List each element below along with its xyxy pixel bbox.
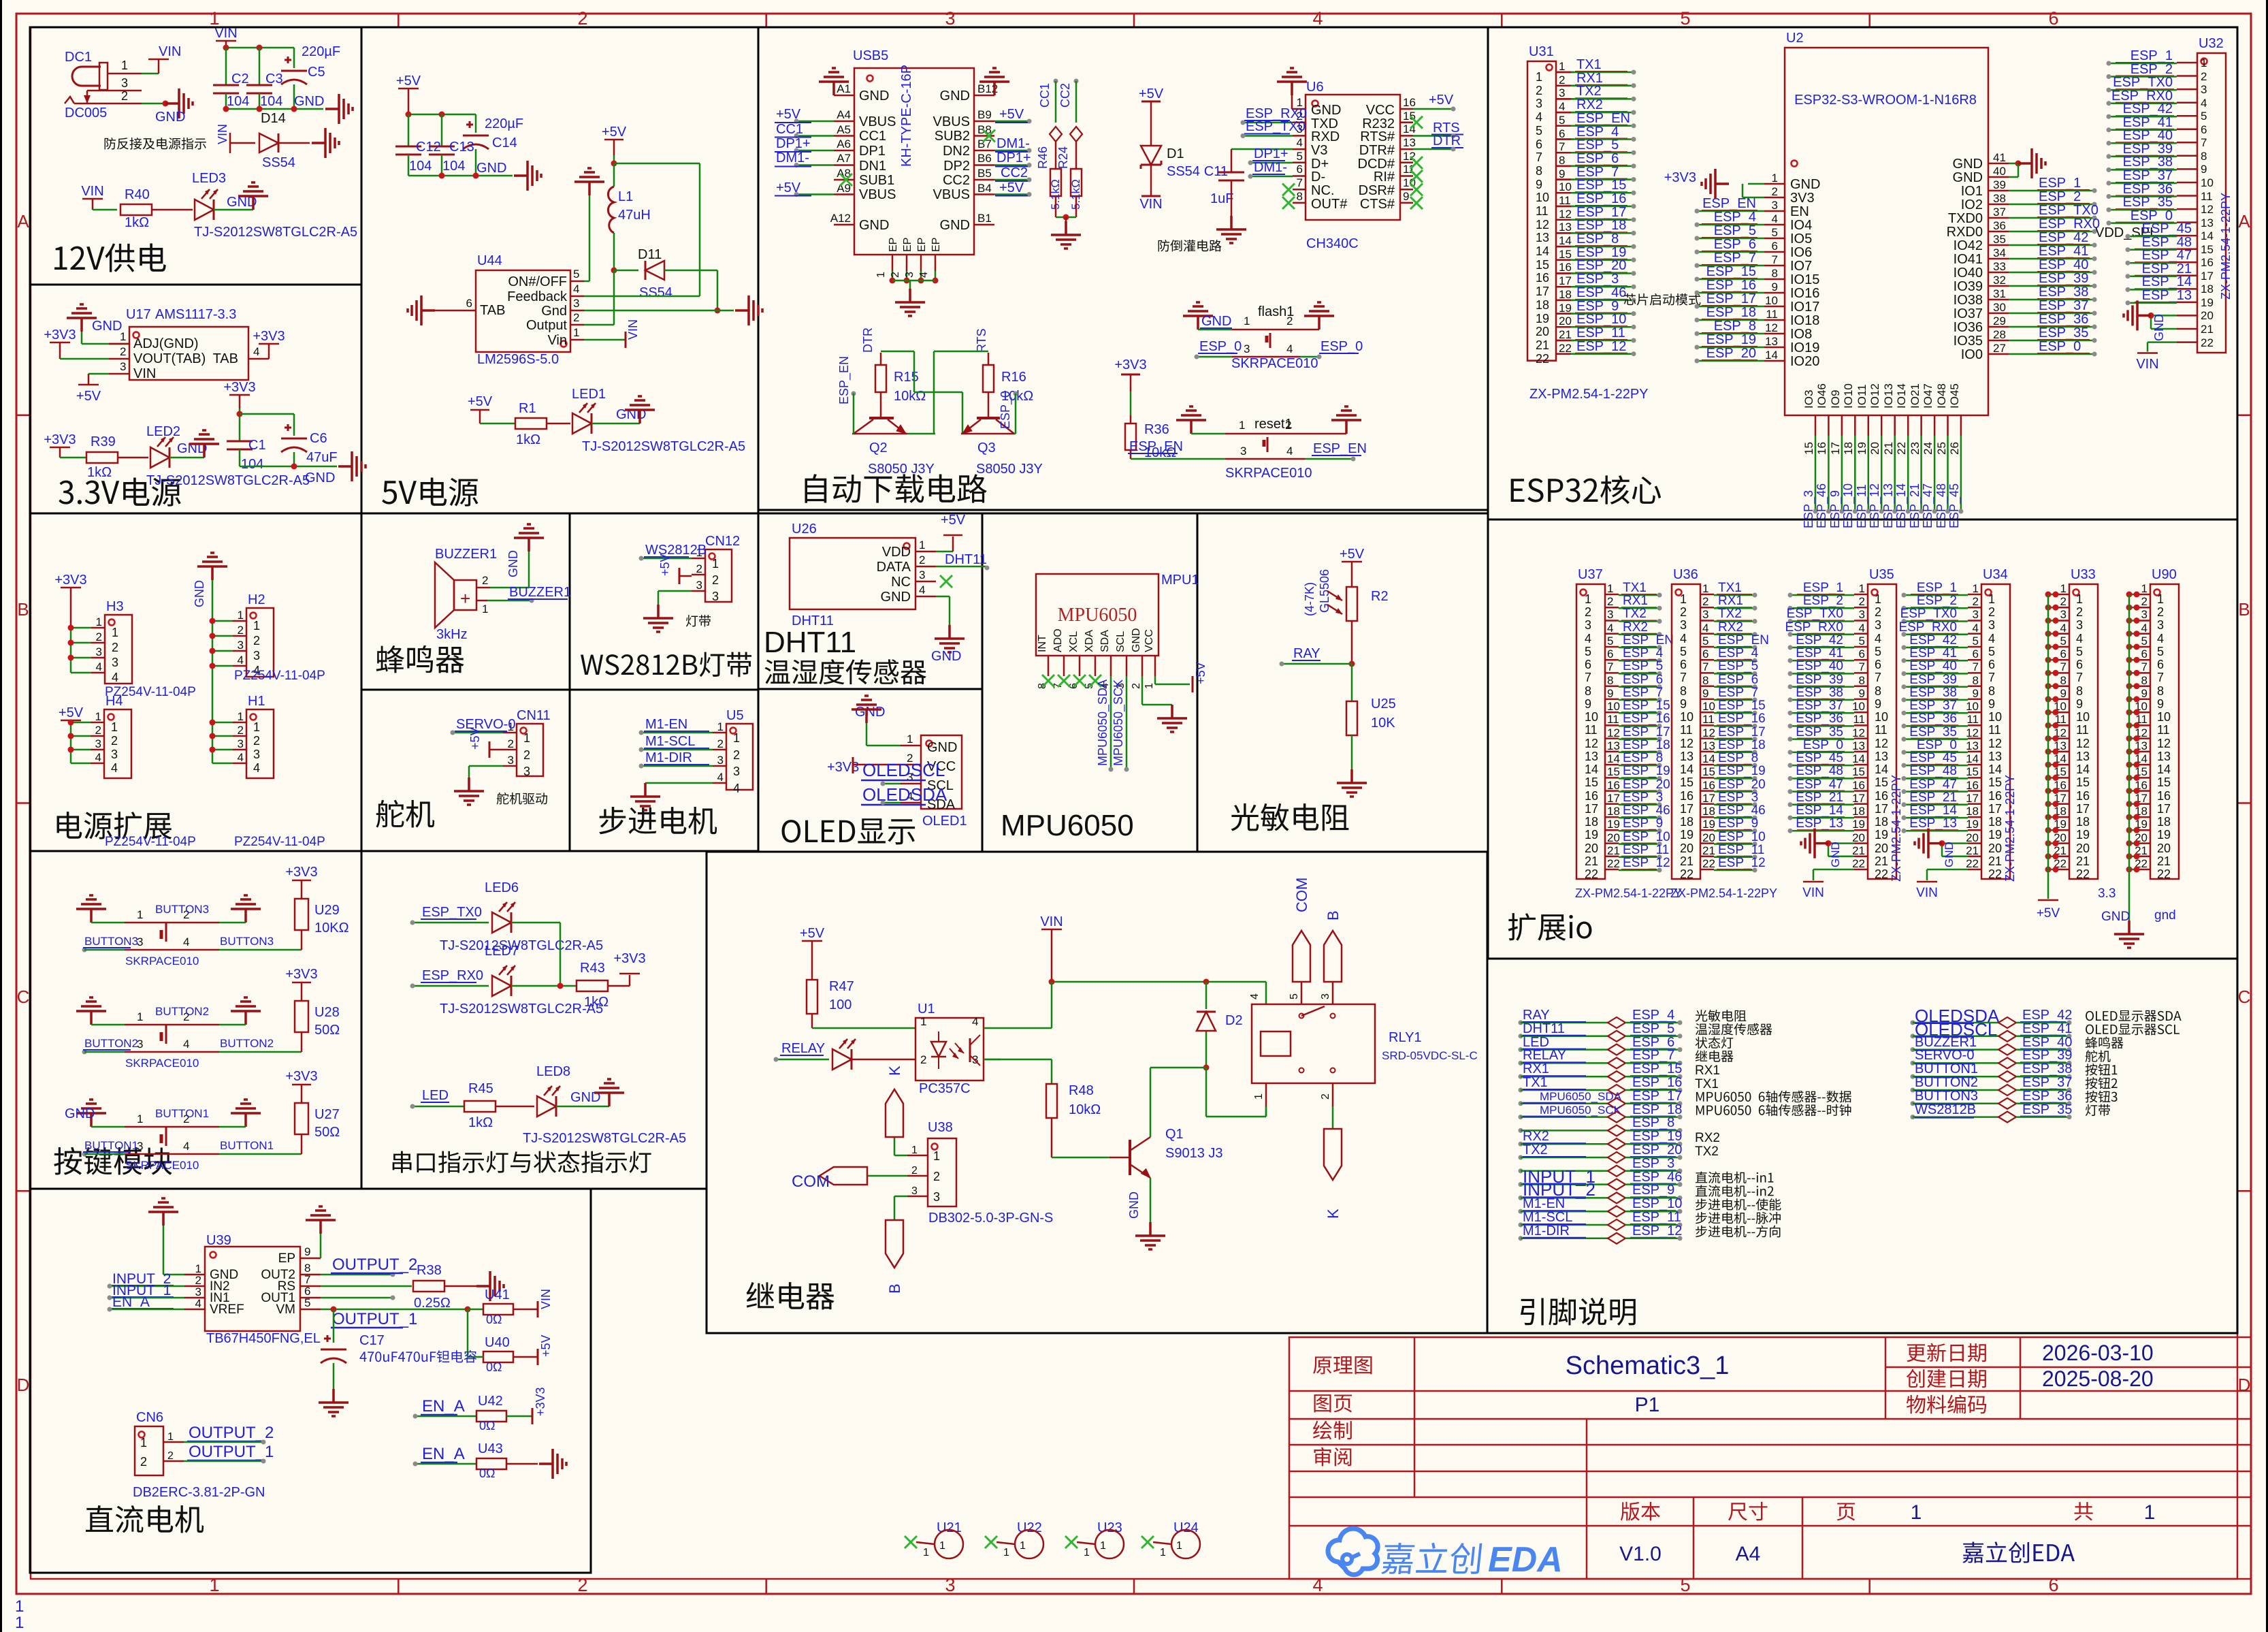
svg-text:Gnd: Gnd <box>541 304 567 319</box>
svg-text:17: 17 <box>2201 270 2214 283</box>
svg-text:DP1: DP1 <box>859 144 886 159</box>
svg-text:8: 8 <box>1859 674 1865 687</box>
svg-text:2: 2 <box>1702 595 1708 608</box>
svg-text:DN2: DN2 <box>943 144 970 159</box>
svg-text:BUTTON2: BUTTON2 <box>84 1037 138 1050</box>
svg-text:9: 9 <box>2060 687 2067 700</box>
svg-text:3: 3 <box>1536 97 1542 110</box>
svg-text:MPU6050_SCK: MPU6050_SCK <box>1540 1104 1622 1117</box>
svg-text:1: 1 <box>1160 1547 1166 1558</box>
svg-text:U42: U42 <box>478 1394 503 1409</box>
svg-text:4: 4 <box>717 771 724 784</box>
svg-text:ESP_15: ESP_15 <box>1718 699 1766 713</box>
svg-text:12: 12 <box>1702 726 1715 739</box>
svg-text:3: 3 <box>120 360 126 373</box>
svg-text:19: 19 <box>1702 818 1715 831</box>
svg-text:5: 5 <box>1680 1575 1690 1595</box>
svg-text:1: 1 <box>120 330 126 343</box>
svg-text:11: 11 <box>2201 190 2213 203</box>
svg-text:ESP_41: ESP_41 <box>1796 646 1843 660</box>
svg-text:2: 2 <box>712 573 719 587</box>
svg-text:GND: GND <box>1790 177 1820 192</box>
svg-text:17: 17 <box>1680 802 1694 816</box>
svg-text:10kΩ: 10kΩ <box>894 389 926 404</box>
svg-text:20: 20 <box>1585 842 1598 855</box>
svg-text:15: 15 <box>1536 258 1549 272</box>
svg-text:1: 1 <box>923 1547 929 1558</box>
svg-text:2: 2 <box>112 641 118 654</box>
svg-text:ESP_6: ESP_6 <box>1576 151 1619 166</box>
svg-text:GND: GND <box>859 218 889 233</box>
svg-text:ESP_0: ESP_0 <box>2039 339 2081 354</box>
svg-text:50Ω: 50Ω <box>314 1023 340 1038</box>
svg-text:SUB1: SUB1 <box>859 173 894 188</box>
svg-text:TXD0: TXD0 <box>1948 211 1983 226</box>
svg-text:+3V3: +3V3 <box>285 967 317 982</box>
svg-text:A7: A7 <box>837 152 851 165</box>
svg-text:28: 28 <box>1993 328 2006 341</box>
svg-text:22: 22 <box>2076 867 2090 881</box>
svg-text:1: 1 <box>1239 419 1245 432</box>
svg-text:+5V: +5V <box>1139 86 1164 101</box>
svg-text:INT: INT <box>1037 635 1048 652</box>
svg-text:ESP_35: ESP_35 <box>2039 325 2088 340</box>
svg-text:ESP_EN: ESP_EN <box>1576 111 1630 126</box>
svg-text:GND: GND <box>931 649 961 664</box>
svg-text:ESP_EN: ESP_EN <box>1313 441 1367 456</box>
svg-text:SKRPACE010: SKRPACE010 <box>125 1057 199 1070</box>
svg-text:1: 1 <box>933 1149 940 1163</box>
svg-text:1: 1 <box>875 272 887 278</box>
svg-text:VCC: VCC <box>1366 103 1395 118</box>
svg-text:gnd: gnd <box>2154 908 2176 923</box>
svg-text:ZX-PM2.54-1-22PY: ZX-PM2.54-1-22PY <box>1670 886 1777 900</box>
svg-text:ESP_7: ESP_7 <box>1623 686 1663 700</box>
svg-text:8: 8 <box>1680 684 1687 698</box>
svg-text:3: 3 <box>1585 618 1591 632</box>
svg-text:reset1: reset1 <box>1254 417 1293 432</box>
svg-text:M1-EN: M1-EN <box>1523 1196 1565 1211</box>
svg-text:47uH: 47uH <box>618 208 651 223</box>
svg-text:10: 10 <box>1765 294 1778 307</box>
svg-text:6: 6 <box>2201 123 2207 136</box>
svg-text:PZ254V-11-04P: PZ254V-11-04P <box>105 835 196 849</box>
svg-text:4: 4 <box>2141 622 2148 635</box>
svg-text:19: 19 <box>1585 828 1598 842</box>
svg-text:19: 19 <box>1607 818 1620 831</box>
svg-text:OLED1: OLED1 <box>922 814 967 829</box>
svg-text:4: 4 <box>253 345 259 358</box>
svg-text:IO46: IO46 <box>1815 383 1828 409</box>
svg-text:C6: C6 <box>310 431 327 446</box>
svg-text:0Ω: 0Ω <box>479 1419 495 1433</box>
svg-text:ESP_40: ESP_40 <box>2123 128 2173 143</box>
svg-text:ESP_1: ESP_1 <box>1917 581 1957 595</box>
svg-text:9: 9 <box>1680 697 1687 711</box>
svg-text:8: 8 <box>2157 684 2164 698</box>
svg-text:3: 3 <box>2060 608 2067 621</box>
svg-text:3: 3 <box>2201 83 2207 96</box>
svg-text:EP: EP <box>888 238 899 252</box>
svg-text:26: 26 <box>1948 442 1961 455</box>
svg-text:21: 21 <box>1875 854 1888 868</box>
svg-text:B: B <box>886 1283 903 1294</box>
svg-text:3: 3 <box>1973 608 1979 621</box>
svg-text:U41: U41 <box>485 1287 510 1302</box>
svg-text:2: 2 <box>919 554 925 566</box>
svg-text:C2: C2 <box>231 71 249 86</box>
svg-text:2: 2 <box>1585 605 1591 619</box>
svg-text:ESP_16: ESP_16 <box>1718 711 1766 726</box>
svg-text:7: 7 <box>2060 660 2067 673</box>
svg-text:BUZZER1: BUZZER1 <box>435 547 497 562</box>
svg-text:5: 5 <box>1859 635 1865 647</box>
svg-text:RX2: RX2 <box>1576 97 1603 112</box>
svg-text:12: 12 <box>1585 737 1598 750</box>
svg-text:15: 15 <box>2157 775 2171 789</box>
svg-text:BUTTON1: BUTTON1 <box>84 1139 138 1152</box>
svg-text:1: 1 <box>573 326 579 339</box>
svg-text:1: 1 <box>733 731 740 745</box>
svg-text:DP1+: DP1+ <box>1254 146 1289 161</box>
svg-text:11: 11 <box>1702 713 1715 726</box>
svg-text:U5: U5 <box>726 708 744 723</box>
svg-text:MPU6050_SDA: MPU6050_SDA <box>1540 1090 1622 1103</box>
svg-text:GND: GND <box>305 470 335 485</box>
svg-text:37: 37 <box>1993 206 2006 219</box>
svg-text:1: 1 <box>96 615 102 628</box>
svg-text:22: 22 <box>1536 352 1549 366</box>
svg-text:18: 18 <box>2076 815 2090 829</box>
svg-text:1: 1 <box>95 710 101 723</box>
svg-text:ESP_1: ESP_1 <box>1803 581 1843 595</box>
svg-text:16: 16 <box>1815 442 1828 455</box>
svg-text:17: 17 <box>1702 792 1715 805</box>
svg-text:ESP_7: ESP_7 <box>1714 251 1756 266</box>
svg-text:B6: B6 <box>977 152 992 165</box>
svg-text:TJ-S2012SW8TGLC2R-A5: TJ-S2012SW8TGLC2R-A5 <box>582 439 745 454</box>
svg-text:4: 4 <box>1286 445 1293 458</box>
svg-text:2: 2 <box>140 1455 147 1469</box>
svg-text:U17: U17 <box>126 307 151 322</box>
svg-text:14: 14 <box>1536 244 1549 258</box>
svg-text:5: 5 <box>1607 635 1613 647</box>
svg-text:A1: A1 <box>837 82 851 95</box>
svg-text:A12: A12 <box>830 212 851 225</box>
svg-text:IO18: IO18 <box>1790 313 1819 328</box>
svg-text:4: 4 <box>918 272 930 278</box>
svg-text:ON#/OFF: ON#/OFF <box>508 274 567 289</box>
svg-text:1kΩ: 1kΩ <box>468 1115 493 1130</box>
svg-text:22: 22 <box>2201 336 2214 349</box>
svg-text:2: 2 <box>2201 70 2207 83</box>
svg-text:3: 3 <box>1244 342 1250 355</box>
svg-text:ESP_10: ESP_10 <box>1718 830 1766 844</box>
svg-text:10: 10 <box>2157 710 2171 724</box>
svg-text:6: 6 <box>1680 658 1687 671</box>
svg-text:VIN: VIN <box>214 26 237 41</box>
svg-text:7: 7 <box>1988 671 1995 684</box>
svg-text:+5V: +5V <box>1194 662 1208 684</box>
svg-text:5: 5 <box>2060 635 2067 647</box>
svg-text:16: 16 <box>1988 789 2002 803</box>
svg-text:Vin: Vin <box>547 333 567 348</box>
svg-text:18: 18 <box>1852 805 1865 818</box>
svg-text:4: 4 <box>183 935 189 948</box>
svg-text:ESP_TX0: ESP_TX0 <box>2113 75 2173 90</box>
svg-text:2: 2 <box>523 748 530 762</box>
svg-text:H2: H2 <box>248 592 265 607</box>
svg-text:4: 4 <box>1772 212 1778 225</box>
svg-text:ESP_8: ESP_8 <box>1576 231 1619 246</box>
svg-text:1: 1 <box>2060 582 2067 595</box>
svg-text:10: 10 <box>1680 710 1694 724</box>
svg-text:7: 7 <box>1702 660 1708 673</box>
svg-text:5: 5 <box>2076 645 2083 658</box>
svg-text:U90: U90 <box>2152 567 2177 582</box>
svg-text:10: 10 <box>1966 700 1979 713</box>
svg-text:11: 11 <box>1559 194 1571 207</box>
svg-text:104: 104 <box>241 457 263 472</box>
svg-text:8: 8 <box>2201 150 2207 163</box>
svg-text:18: 18 <box>1585 815 1598 829</box>
svg-text:19: 19 <box>1536 312 1549 325</box>
svg-text:10: 10 <box>2201 176 2214 189</box>
svg-text:WS2812B: WS2812B <box>1915 1102 1976 1117</box>
svg-text:9: 9 <box>1875 697 1881 711</box>
svg-text:6: 6 <box>1988 658 1995 671</box>
svg-text:3: 3 <box>253 748 260 761</box>
svg-text:7: 7 <box>2201 136 2207 149</box>
svg-text:VIN: VIN <box>216 124 229 144</box>
svg-text:9: 9 <box>1585 697 1591 711</box>
svg-text:2: 2 <box>2060 595 2067 608</box>
svg-text:11: 11 <box>1766 308 1778 321</box>
svg-text:ESP_21: ESP_21 <box>1796 790 1843 805</box>
svg-text:1: 1 <box>1911 1501 1922 1524</box>
svg-text:2: 2 <box>121 89 128 103</box>
svg-text:17: 17 <box>1536 285 1549 298</box>
svg-text:4: 4 <box>112 671 118 684</box>
svg-text:16: 16 <box>2076 789 2090 803</box>
svg-text:ESP_47: ESP_47 <box>1909 778 1957 792</box>
svg-text:IO8: IO8 <box>1790 327 1812 342</box>
svg-text:4: 4 <box>1607 622 1613 635</box>
svg-text:6: 6 <box>1875 658 1881 671</box>
svg-text:+3V3: +3V3 <box>534 1387 547 1416</box>
svg-text:21: 21 <box>1988 854 2002 868</box>
svg-text:1: 1 <box>1020 1540 1026 1552</box>
svg-text:ESP_15: ESP_15 <box>1632 1061 1682 1076</box>
svg-text:9: 9 <box>1702 687 1708 700</box>
svg-text:ESP_19: ESP_19 <box>1706 332 1756 347</box>
svg-text:9: 9 <box>2201 163 2207 176</box>
svg-text:10K: 10K <box>1371 716 1395 731</box>
svg-text:DP1+: DP1+ <box>997 150 1031 165</box>
svg-text:ESP_38: ESP_38 <box>2123 155 2173 170</box>
svg-text:ESP_14: ESP_14 <box>1796 803 1843 818</box>
svg-text:+5V: +5V <box>1340 547 1365 562</box>
svg-text:18: 18 <box>2157 815 2171 829</box>
svg-text:ESP_10: ESP_10 <box>1841 483 1856 528</box>
svg-text:14: 14 <box>1559 234 1572 247</box>
svg-text:2: 2 <box>111 734 118 748</box>
svg-text:ESP_35: ESP_35 <box>1796 725 1843 739</box>
svg-text:GND: GND <box>1953 170 1983 185</box>
svg-text:ESP_8: ESP_8 <box>1718 751 1758 765</box>
svg-text:14: 14 <box>1607 752 1620 765</box>
svg-text:ESP_6: ESP_6 <box>1623 673 1663 687</box>
svg-text:3: 3 <box>238 737 244 750</box>
svg-text:ESP_2: ESP_2 <box>1803 594 1843 608</box>
svg-text:BUTTON1: BUTTON1 <box>220 1139 274 1152</box>
svg-text:ESP_16: ESP_16 <box>1706 278 1756 293</box>
svg-text:WS2812B: WS2812B <box>645 543 707 558</box>
svg-text:19: 19 <box>1680 828 1694 842</box>
svg-text:ESP_16: ESP_16 <box>1576 191 1626 206</box>
svg-text:VIN: VIN <box>2136 357 2158 372</box>
svg-text:XCL: XCL <box>1068 631 1080 652</box>
svg-text:+3V3: +3V3 <box>1114 357 1146 372</box>
svg-text:U1: U1 <box>918 1002 935 1017</box>
svg-text:4: 4 <box>238 751 244 764</box>
svg-text:+5V: +5V <box>800 926 825 941</box>
svg-text:K: K <box>886 1066 903 1076</box>
svg-text:3: 3 <box>523 765 530 778</box>
svg-text:14: 14 <box>2201 229 2214 242</box>
svg-text:17: 17 <box>1607 792 1620 805</box>
svg-text:18: 18 <box>1875 815 1888 829</box>
svg-text:ESP_46: ESP_46 <box>1718 803 1766 818</box>
svg-text:+5V: +5V <box>396 74 421 89</box>
svg-text:U43: U43 <box>478 1441 503 1456</box>
svg-text:GND: GND <box>92 319 122 334</box>
svg-text:22: 22 <box>1852 857 1865 870</box>
svg-text:ESP_6: ESP_6 <box>1718 673 1758 687</box>
svg-text:4: 4 <box>1973 622 1979 635</box>
svg-text:12: 12 <box>1875 737 1888 750</box>
svg-text:ESP_17: ESP_17 <box>1623 725 1670 739</box>
svg-text:R46: R46 <box>1036 146 1050 169</box>
svg-text:DC1: DC1 <box>65 50 92 65</box>
svg-text:15: 15 <box>1702 765 1715 778</box>
svg-text:3: 3 <box>1702 608 1708 621</box>
svg-text:1kΩ: 1kΩ <box>516 432 540 447</box>
svg-text:ESP_13: ESP_13 <box>2142 288 2192 303</box>
svg-text:13: 13 <box>1702 739 1715 752</box>
svg-text:SKRPACE010: SKRPACE010 <box>125 1159 199 1172</box>
svg-text:4: 4 <box>1297 136 1303 149</box>
svg-text:2: 2 <box>2141 595 2148 608</box>
svg-text:ESP_42: ESP_42 <box>1909 633 1957 647</box>
svg-text:IO37: IO37 <box>1954 306 1983 321</box>
svg-text:+3V3: +3V3 <box>44 432 76 447</box>
svg-text:2: 2 <box>1559 74 1565 86</box>
svg-text:20: 20 <box>1966 831 1979 844</box>
svg-text:5: 5 <box>1585 645 1591 658</box>
svg-text:GND: GND <box>1127 1191 1141 1219</box>
svg-text:ESP_37: ESP_37 <box>2039 298 2088 313</box>
svg-text:ESP_16: ESP_16 <box>1632 1075 1682 1090</box>
svg-text:A4: A4 <box>1736 1543 1761 1565</box>
svg-text:ESP_45: ESP_45 <box>2142 221 2192 236</box>
svg-text:16: 16 <box>1680 789 1694 803</box>
svg-text:ESP_11: ESP_11 <box>1632 1210 1681 1225</box>
svg-text:ESP_40: ESP_40 <box>1909 659 1957 673</box>
svg-text:C14: C14 <box>492 135 517 150</box>
svg-text:10: 10 <box>1559 180 1572 193</box>
svg-text:22: 22 <box>1585 867 1598 881</box>
svg-text:0Ω: 0Ω <box>486 1360 502 1374</box>
svg-text:3: 3 <box>2141 608 2148 621</box>
svg-text:TAB: TAB <box>213 351 238 366</box>
svg-text:PZ254V-11-04P: PZ254V-11-04P <box>234 669 325 683</box>
svg-text:10: 10 <box>2076 710 2090 724</box>
svg-text:RX1: RX1 <box>1695 1063 1720 1078</box>
svg-text:TJ-S2012SW8TGLC2R-A5: TJ-S2012SW8TGLC2R-A5 <box>440 938 603 953</box>
svg-text:GND: GND <box>2152 314 2166 341</box>
svg-text:RAY: RAY <box>1523 1008 1550 1023</box>
svg-text:15: 15 <box>1988 775 2002 789</box>
svg-text:2: 2 <box>167 1450 174 1462</box>
svg-text:2: 2 <box>733 748 740 762</box>
svg-text:40: 40 <box>1993 165 2006 178</box>
svg-text:2: 2 <box>2076 605 2083 619</box>
svg-text:D14: D14 <box>261 111 286 126</box>
svg-text:+5V: +5V <box>1429 93 1454 108</box>
svg-text:ADO: ADO <box>1052 628 1064 652</box>
svg-text:ESP_13: ESP_13 <box>1796 816 1843 831</box>
svg-text:IO48: IO48 <box>1935 383 1948 409</box>
svg-text:20: 20 <box>1988 842 2002 855</box>
svg-text:B: B <box>2238 599 2250 620</box>
svg-text:5: 5 <box>1772 226 1778 239</box>
svg-text:8: 8 <box>1297 190 1303 203</box>
svg-text:4: 4 <box>1680 632 1687 645</box>
svg-text:B5: B5 <box>977 167 992 180</box>
svg-text:LED6: LED6 <box>485 880 519 895</box>
svg-text:TX2: TX2 <box>1576 84 1602 99</box>
svg-text:ESP_38: ESP_38 <box>2022 1061 2072 1076</box>
svg-text:ESP_RX0: ESP_RX0 <box>2039 217 2100 231</box>
svg-text:L1: L1 <box>618 189 633 204</box>
svg-text:3: 3 <box>95 737 101 750</box>
svg-text:17: 17 <box>1829 442 1842 455</box>
svg-text:ESP_36: ESP_36 <box>2022 1089 2072 1104</box>
svg-text:ESP_35: ESP_35 <box>1909 725 1957 739</box>
svg-text:GND: GND <box>476 161 506 176</box>
svg-text:ESP_3: ESP_3 <box>1623 790 1663 805</box>
svg-text:6: 6 <box>2060 647 2067 660</box>
svg-text:3: 3 <box>1988 618 1995 632</box>
svg-text:3: 3 <box>1240 445 1246 458</box>
svg-text:R38: R38 <box>417 1263 442 1278</box>
svg-text:15: 15 <box>1966 765 1979 778</box>
svg-text:ESP_37: ESP_37 <box>1796 699 1843 713</box>
svg-text:13: 13 <box>1559 221 1572 234</box>
svg-text:5: 5 <box>573 268 579 281</box>
svg-text:1: 1 <box>1003 1547 1009 1558</box>
svg-text:3: 3 <box>712 590 719 603</box>
svg-text:GND: GND <box>193 580 206 607</box>
svg-text:DP1+: DP1+ <box>776 136 811 151</box>
svg-text:MPU6050_SCK: MPU6050_SCK <box>1112 679 1126 766</box>
svg-text:IO19: IO19 <box>1790 340 1819 355</box>
svg-text:4: 4 <box>1249 993 1261 999</box>
svg-text:3: 3 <box>733 765 740 778</box>
svg-text:29: 29 <box>1993 315 2006 327</box>
svg-text:2025-08-20: 2025-08-20 <box>2042 1366 2154 1391</box>
